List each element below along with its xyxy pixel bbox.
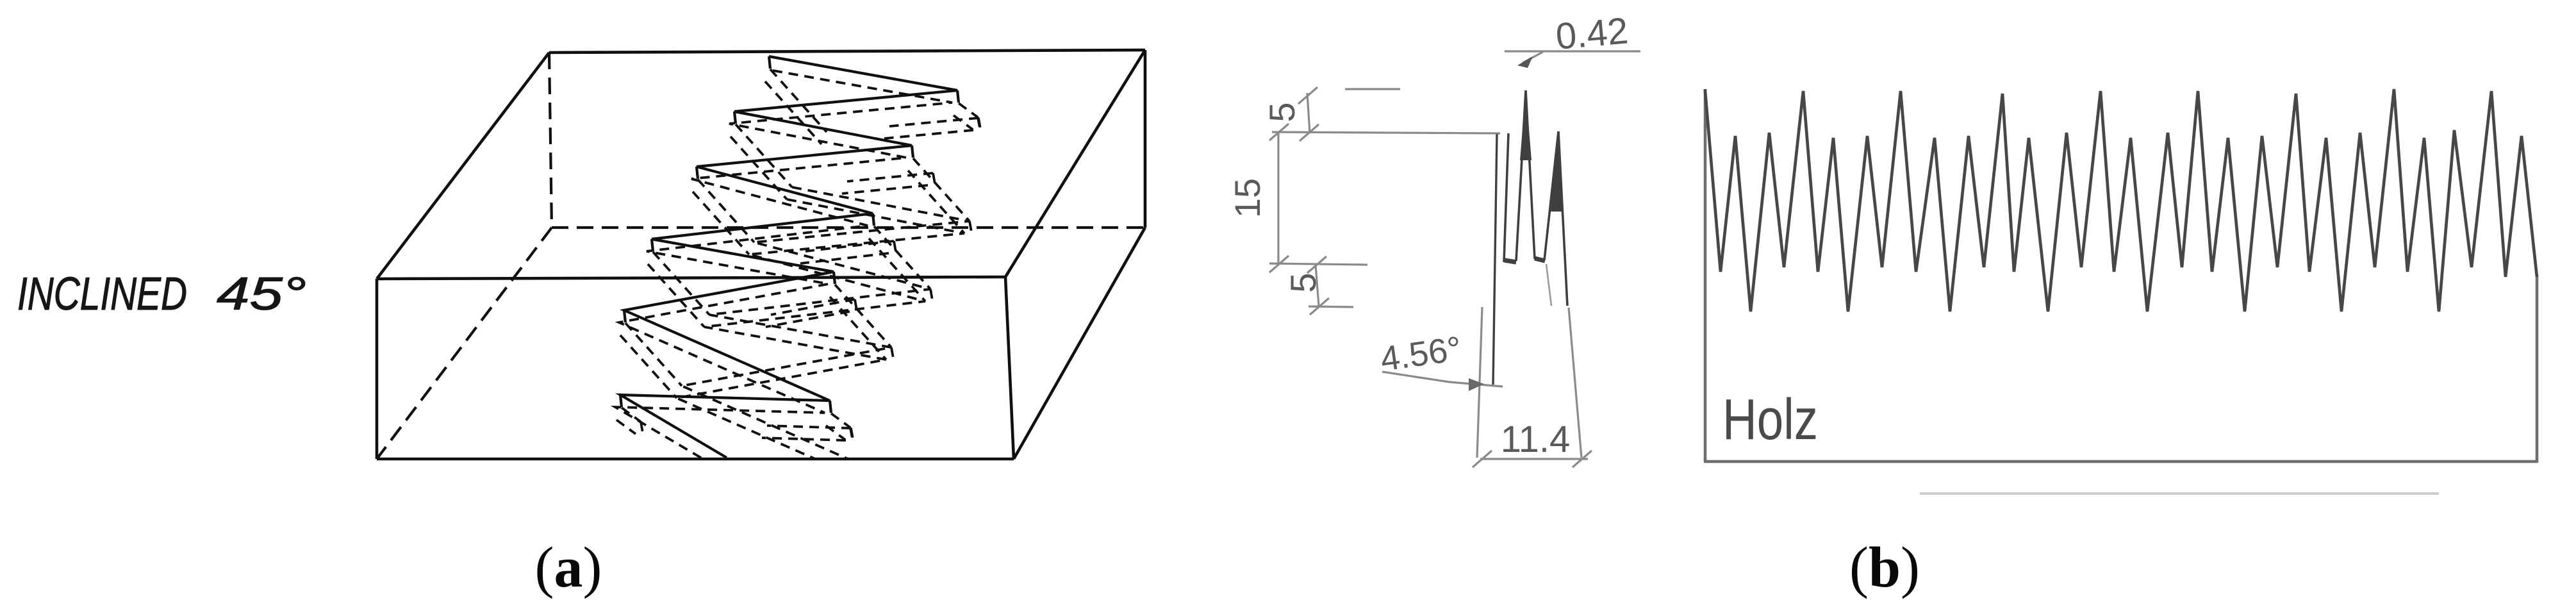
wire tick <box>1573 451 1592 467</box>
wire joint bottom profile zigzag (dashed) <box>682 187 970 476</box>
wire joint connector diagonals (dashed) <box>770 69 827 132</box>
svg-text:5: 5 <box>1283 272 1323 292</box>
wire tick <box>1307 256 1326 273</box>
wire tooth peak 2 tip fill <box>1551 131 1564 212</box>
wire front-bottom edge <box>377 458 1014 461</box>
svg-text:0.42: 0.42 <box>1554 10 1630 58</box>
wire 11.4 dimension line <box>1480 458 1588 460</box>
wire tooth left flank <box>1493 134 1497 385</box>
wire tip-level reference line <box>1345 88 1400 90</box>
wire joint bottom kerf zigzag (dashed) <box>677 199 964 488</box>
wire front-right edge <box>1005 277 1014 459</box>
wire left extension to 11.4 <box>1477 307 1482 458</box>
wire shoulder dimension line <box>1272 132 1500 133</box>
svg-text:INCLINED: INCLINED <box>17 269 187 320</box>
wire 5-top extension <box>1307 93 1310 133</box>
wire hidden bottom-left edge <box>377 228 552 459</box>
wire roughness profile waveform <box>1705 89 2537 312</box>
wire front-top edge <box>377 277 1005 279</box>
wire top-left edge <box>377 53 549 279</box>
wire tick <box>1298 87 1317 104</box>
wire tooth valley blob 2 <box>1535 258 1545 261</box>
wire 0.42 leader line <box>1505 50 1640 52</box>
wire panel b left edge <box>1704 89 1707 462</box>
svg-text:11.4: 11.4 <box>1501 419 1571 460</box>
wire right extension to 11.4 <box>1569 308 1581 458</box>
wire base-level line <box>1309 306 1353 307</box>
wire 4.56 leader arrow <box>1449 382 1503 387</box>
wire 0.42 arrow <box>1523 52 1543 63</box>
wire 5-bottom extension <box>1316 265 1319 306</box>
wire tick <box>1269 256 1289 272</box>
wire joint kerf zigzag (dashed) <box>615 71 952 470</box>
wire tooth peak 1 tip fill <box>1520 90 1532 160</box>
wire joint profile vertex edges <box>769 56 770 69</box>
svg-text:Holz: Holz <box>1722 388 1818 452</box>
wire tooth third flank faint <box>1546 264 1551 306</box>
wire hidden back-bottom edge <box>552 226 1145 229</box>
wire tick <box>1269 124 1289 140</box>
wire hidden back-left edge <box>549 53 552 228</box>
wire valley-level line <box>1269 263 1367 265</box>
wire back-right vertical edge <box>1144 50 1147 228</box>
wire tooth valley blob 1 <box>1505 260 1516 262</box>
wire panel b bottom edge <box>1704 460 2537 463</box>
wire 4.56 leader line <box>1382 372 1449 382</box>
wire joint bottom profile tooth edges (dashed) <box>970 221 971 232</box>
svg-text:15: 15 <box>1227 178 1267 218</box>
svg-text:5: 5 <box>1262 102 1302 122</box>
wire joint mating-edge partial returns (dashed) <box>889 118 978 126</box>
wire faint scan line below panel b <box>1920 492 2439 495</box>
wire tick <box>1473 451 1492 467</box>
wire 15 dimension line <box>1277 132 1279 264</box>
wire tooth peak 2 <box>1544 131 1567 306</box>
svg-text:(b): (b) <box>1849 536 1920 599</box>
wire tick <box>1310 298 1329 315</box>
wire top-face right edge <box>1005 50 1145 277</box>
wire tick <box>1300 124 1319 141</box>
wire tooth peak 1 <box>1516 90 1535 261</box>
wire tooth flank <box>1504 133 1508 262</box>
svg-text:45°: 45° <box>217 269 306 320</box>
wire front-left edge <box>376 279 379 459</box>
wire joint profile zigzag (solid, top surface) <box>620 56 957 458</box>
wire panel b right edge <box>2536 276 2539 463</box>
wire back-top edge <box>549 50 1145 53</box>
wire bottom-right edge <box>1014 228 1145 459</box>
svg-text:(a): (a) <box>535 536 602 599</box>
